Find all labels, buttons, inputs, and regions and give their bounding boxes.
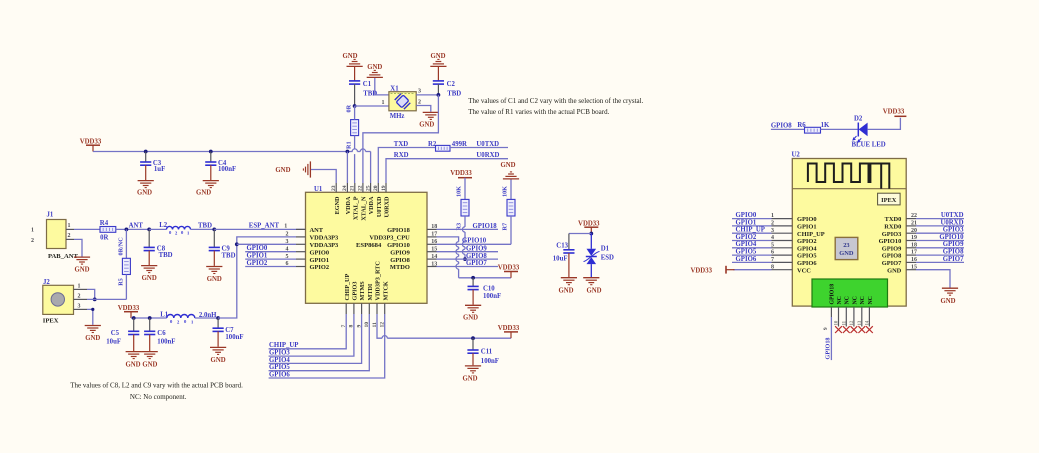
svg-text:17: 17 [431, 232, 437, 238]
svg-text:25: 25 [365, 185, 371, 191]
svg-text:C6: C6 [157, 330, 166, 337]
wire net GPIO7 [437, 260, 499, 267]
U1 pin 14 GPIO8 [390, 254, 437, 264]
svg-text:BLUE LED: BLUE LED [852, 141, 886, 148]
U1 pin 6 GPIO2 [296, 264, 329, 271]
wire VDDA pin25 to rail [370, 152, 372, 184]
svg-text:TBD: TBD [159, 252, 173, 259]
svg-text:GPIO6: GPIO6 [797, 260, 817, 267]
U2 pin 20 GPIO3 [882, 227, 964, 238]
junction C10 [471, 276, 475, 280]
svg-text:1: 1 [68, 223, 71, 229]
svg-text:15: 15 [431, 247, 437, 253]
junction VDDA pin 24 [346, 150, 350, 154]
svg-text:GND: GND [500, 162, 515, 169]
wire U1 pin17 to VDD33/C10 [437, 237, 512, 278]
wire VDD33 rail [93, 149, 371, 152]
ground above C2 [430, 53, 446, 81]
U2 pin 19 GPIO10 [879, 234, 965, 245]
node XTAL_N junction [437, 93, 441, 97]
U1 bottom pin 9 MTMS [356, 281, 366, 328]
svg-text:GPIO8: GPIO8 [466, 253, 487, 260]
ground under C8 [141, 266, 157, 283]
U1 pin 1 ANT [296, 227, 324, 234]
wire J2.2 to R5 [87, 298, 126, 300]
svg-text:20: 20 [373, 185, 379, 191]
svg-text:GPIO0: GPIO0 [736, 212, 757, 219]
svg-text:GPIO8: GPIO8 [390, 257, 410, 264]
U1 top pin 20 U0TXD [373, 183, 383, 217]
svg-text:GND: GND [839, 250, 854, 257]
svg-text:18: 18 [431, 224, 437, 230]
svg-text:NC: NC [852, 296, 858, 304]
diode D1 ESD [584, 234, 615, 278]
diode D2 BLUE LED [852, 115, 886, 148]
power VDD33 at D1 [578, 220, 600, 233]
svg-text:GPIO5: GPIO5 [736, 249, 757, 256]
wire net GPIO8 to R6 [771, 122, 805, 129]
svg-text:MHz: MHz [390, 113, 405, 120]
svg-text:VDD3P3_CPU: VDD3P3_CPU [369, 235, 410, 242]
svg-text:GPIO18: GPIO18 [824, 337, 831, 359]
svg-text:GND: GND [142, 275, 157, 282]
svg-text:2: 2 [78, 293, 81, 299]
svg-text:GPIO6: GPIO6 [269, 371, 290, 378]
U1 pin 15 GPIO9 [390, 247, 437, 257]
U2 center pad 23 GND [835, 237, 858, 259]
svg-text:ANT: ANT [310, 227, 324, 234]
svg-text:0R/NC: 0R/NC [118, 237, 125, 255]
resistor R4 0R [100, 220, 116, 241]
junction at U1 pin 3 [235, 242, 296, 246]
capacitor C9 TBD [209, 228, 236, 266]
svg-text:GND: GND [85, 335, 100, 342]
svg-text:TBD: TBD [222, 252, 236, 259]
wire D2 to VDD33 [868, 118, 901, 130]
svg-text:VDD33: VDD33 [498, 265, 520, 272]
svg-text:2: 2 [68, 233, 71, 239]
wire net GPIO2 at U1 [245, 260, 296, 267]
svg-text:GND: GND [137, 189, 152, 196]
svg-text:U0RXD: U0RXD [384, 196, 391, 217]
U1 top pin 19 U0RXD [381, 183, 391, 217]
U2 NC pin 11 no-connect [843, 307, 850, 333]
svg-text:10: 10 [835, 320, 840, 325]
U2 pin 8 VCC [733, 264, 811, 274]
svg-text:GPIO18: GPIO18 [473, 223, 498, 230]
svg-text:GPIO3: GPIO3 [882, 231, 902, 238]
svg-text:TXD: TXD [394, 141, 408, 148]
svg-text:C13: C13 [556, 243, 568, 250]
U1 pin 18 GPIO18 [387, 224, 437, 234]
svg-text:U0TXD: U0TXD [476, 141, 499, 148]
U2 NC pin 14 no-connect [866, 307, 873, 333]
svg-text:GND: GND [419, 121, 434, 128]
svg-text:The values of C8, L2 and C9 v: The values of C8, L2 and C9 vary with th… [70, 382, 243, 390]
svg-text:RXD: RXD [394, 152, 409, 159]
svg-text:GPIO5: GPIO5 [269, 364, 290, 371]
svg-text:RXD0: RXD0 [884, 224, 901, 231]
U1 pin 3 VDDA3P3 [296, 242, 338, 249]
svg-text:GPIO1: GPIO1 [247, 253, 268, 260]
svg-text:GND: GND [275, 167, 290, 174]
wire J1.2 to ground [74, 239, 82, 256]
resistor R3 10K [455, 186, 469, 231]
svg-text:CHIP_UP: CHIP_UP [736, 227, 765, 234]
ground under C7 [210, 347, 226, 364]
svg-text:ANT: ANT [129, 223, 144, 230]
connector J2 (IPEX) [43, 279, 74, 324]
U1 bottom pin 10 MTDI [364, 283, 374, 327]
U1 top pin 21 XTAL_P [350, 183, 360, 220]
junction C6 [148, 316, 152, 320]
svg-text:GND: GND [74, 267, 89, 274]
svg-text:GPIO10: GPIO10 [387, 242, 410, 249]
svg-text:6: 6 [286, 261, 289, 267]
wire VDD33 node to C13 [569, 232, 593, 250]
svg-text:NC: NC [837, 296, 843, 304]
U1 top pin 24 VDDA [342, 183, 352, 214]
svg-text:VDD33: VDD33 [118, 305, 140, 312]
ground under C13 [558, 278, 577, 295]
svg-text:U2: U2 [792, 152, 801, 159]
resistor R7 10K [501, 186, 515, 231]
wire VDDA pin24 to rail [346, 152, 348, 184]
U1 pin numbers 2-6 [286, 232, 289, 268]
svg-text:GPIO2: GPIO2 [736, 234, 757, 241]
svg-text:VDD33: VDD33 [690, 267, 712, 274]
svg-text:C11: C11 [481, 348, 493, 355]
wire net GPIO8 [437, 253, 499, 260]
svg-text:NC: NC [845, 296, 851, 304]
U1 pin 2 VDDA3P3 [296, 235, 338, 242]
svg-text:3: 3 [78, 303, 81, 309]
wire C7 node to U1 VDDA3P3 pins [218, 237, 296, 318]
J2 pin 1 [74, 283, 88, 289]
crystal X1 MHz [389, 85, 416, 120]
wire R4 to node ANT [116, 228, 149, 230]
svg-text:2: 2 [286, 232, 289, 238]
svg-text:GPIO1: GPIO1 [736, 219, 757, 226]
wire ANT to L2 [149, 228, 166, 230]
U2 pin 2 GPIO1 [732, 219, 817, 230]
wire net GPIO3 [269, 314, 354, 357]
svg-text:C5: C5 [111, 330, 120, 337]
ground under C9 [206, 267, 222, 284]
wire net GPIO18 [437, 223, 499, 230]
wire R7 to GPIO10 [510, 216, 512, 244]
wire net RXD / U0RXD [386, 152, 508, 183]
U2 pin 3 CHIP_UP [732, 227, 825, 238]
wire X1 pin 3 to C2 node [416, 89, 438, 95]
svg-text:ESP8684: ESP8684 [356, 242, 382, 249]
svg-text:GND: GND [211, 357, 226, 364]
svg-text:GPIO4: GPIO4 [797, 245, 817, 252]
wire L2 to C9 node [191, 228, 215, 230]
svg-text:GPIO9: GPIO9 [390, 249, 410, 256]
svg-text:VDDA: VDDA [345, 196, 352, 214]
svg-text:U0RXD: U0RXD [476, 152, 499, 159]
U1 pin 17 VDD3P3_CPU [369, 232, 437, 242]
ground under C5 [125, 352, 141, 369]
svg-text:GPIO0: GPIO0 [797, 216, 817, 223]
svg-text:VCC: VCC [797, 267, 811, 274]
svg-text:23: 23 [331, 185, 337, 191]
wire net GPIO4 [269, 314, 362, 364]
svg-text:GPIO7: GPIO7 [466, 260, 487, 267]
svg-text:MTDO: MTDO [390, 264, 410, 271]
capacitor C4 100nF [205, 152, 236, 181]
svg-text:100nF: 100nF [481, 358, 499, 365]
svg-text:1: 1 [284, 224, 287, 230]
svg-text:GPIO10: GPIO10 [462, 238, 487, 245]
ground above R7 [500, 162, 519, 199]
svg-text:GPIO3: GPIO3 [269, 350, 290, 357]
wire R6 to D2 [821, 128, 858, 130]
svg-text:GPIO2: GPIO2 [247, 260, 268, 267]
capacitor C3 1uF [140, 152, 165, 181]
wire net GPIO6 [269, 314, 385, 378]
svg-text:MTMS: MTMS [359, 281, 366, 301]
U2 bottom connector (green) [812, 279, 888, 307]
svg-text:GPIO8: GPIO8 [771, 122, 792, 129]
resistor R5 0R/NC vertical [118, 229, 131, 299]
U2 pin 22 TXD0 [885, 212, 964, 223]
svg-text:14: 14 [866, 320, 871, 325]
connector J1 (PAB_ANT) [31, 212, 79, 260]
svg-text:IPEX: IPEX [43, 317, 59, 324]
U2 pin 6 GPIO5 [732, 249, 817, 260]
power VDD33 at C11 [498, 325, 520, 338]
svg-text:VDDA3P3: VDDA3P3 [310, 242, 339, 249]
wire net TXD [378, 141, 435, 183]
svg-text:GND: GND [367, 64, 382, 71]
ground under C11 [462, 366, 481, 382]
U2 pin 16 GPIO7 [882, 256, 964, 267]
svg-text:MTDI: MTDI [367, 283, 374, 300]
capacitor C10 100nF [468, 278, 502, 305]
svg-text:GPIO7: GPIO7 [882, 260, 902, 267]
svg-text:The values of C1 and C2 vary w: The values of C1 and C2 vary with the se… [468, 97, 643, 105]
svg-text:3: 3 [286, 239, 289, 245]
svg-text:GPIO1: GPIO1 [310, 257, 330, 264]
svg-text:NC: NC [868, 296, 874, 304]
wire J1.1 to R4 [74, 228, 100, 230]
junction C4 [209, 150, 213, 154]
U1 pin 5 GPIO1 [296, 257, 329, 264]
svg-text:VDD33: VDD33 [578, 220, 600, 227]
ground under J1 [74, 257, 90, 274]
svg-text:ESP_ANT: ESP_ANT [249, 223, 280, 230]
svg-text:C10: C10 [483, 285, 495, 292]
node ANT junction [125, 223, 144, 232]
svg-text:CHIP_UP: CHIP_UP [797, 231, 825, 238]
U2 pin 18 GPIO9 [882, 241, 964, 252]
capacitor C5 10uF [106, 318, 139, 351]
svg-text:GND: GND [207, 276, 222, 283]
svg-text:GND: GND [887, 267, 902, 274]
U2 pin 7 GPIO6 [732, 256, 817, 267]
svg-text:VDD33: VDD33 [498, 325, 520, 332]
svg-text:The value of R1 varies with th: The value of R1 varies with the actual P… [468, 108, 609, 116]
U1 pin 16 GPIO10 [387, 239, 437, 249]
wire R3 to GPIO8 [462, 216, 467, 261]
svg-text:GPIO0: GPIO0 [310, 249, 330, 256]
svg-text:GPIO3: GPIO3 [943, 227, 964, 234]
svg-text:23: 23 [843, 242, 849, 249]
svg-text:0R: 0R [100, 234, 108, 241]
ground above C1 [342, 53, 362, 81]
wire L1 to C7 node [195, 316, 220, 320]
wire net GPIO1 at U1 [245, 253, 296, 260]
svg-text:1uF: 1uF [154, 166, 165, 173]
svg-text:GPIO18: GPIO18 [387, 227, 410, 234]
U2 pin 17 GPIO8 [882, 249, 964, 260]
wire net ESP_ANT to U1 pin 1 [214, 223, 305, 230]
resistor R6 1K [797, 122, 830, 133]
svg-text:GPIO10: GPIO10 [939, 234, 964, 241]
U2 pin 21 RXD0 [884, 219, 964, 230]
wire net GPIO5 [269, 314, 370, 371]
ground under C3 [137, 181, 154, 197]
power VDD33 top right [883, 108, 907, 116]
svg-text:D2: D2 [854, 115, 863, 122]
svg-text:TBD: TBD [447, 90, 461, 97]
U2 pin 4 GPIO2 [732, 234, 817, 245]
svg-text:GND: GND [125, 361, 140, 368]
J1 pin 2 stub [66, 233, 74, 239]
svg-text:GND: GND [462, 375, 477, 382]
svg-text:VDD33: VDD33 [883, 108, 905, 115]
svg-text:10K: 10K [455, 186, 462, 197]
wire J2.1 to J2.2 node [87, 289, 97, 301]
ground at U2 pin 15 [940, 288, 958, 305]
svg-text:10uF: 10uF [106, 338, 121, 345]
svg-text:MTCK: MTCK [382, 281, 389, 300]
svg-text:100nF: 100nF [225, 334, 243, 341]
wire net GPIO9 [437, 245, 499, 252]
U1 pin 13 MTDO [390, 261, 437, 271]
wire X1 pin 2 to ground [416, 99, 431, 112]
svg-text:GPIO1: GPIO1 [797, 224, 817, 231]
U2 pin 5 GPIO4 [732, 241, 817, 252]
svg-text:2: 2 [418, 99, 421, 105]
svg-text:16: 16 [431, 239, 437, 245]
wire net GPIO0 at U1 [245, 245, 296, 252]
resistor R2 499R [428, 141, 467, 151]
svg-text:GPIO0: GPIO0 [247, 245, 268, 252]
ground under D1 [583, 278, 601, 295]
svg-text:GND: GND [586, 287, 601, 294]
svg-text:R5: R5 [118, 278, 125, 286]
svg-text:GPIO6: GPIO6 [736, 256, 757, 263]
svg-text:21: 21 [350, 185, 356, 191]
svg-text:VDDA3P3: VDDA3P3 [310, 235, 339, 242]
U2 PCB antenna [808, 164, 889, 189]
svg-text:GND: GND [558, 287, 573, 294]
U2 pin 9 GPIO18 wire [823, 307, 832, 360]
wire J2.3 to ground [87, 308, 94, 325]
op-chip U1 ESP8684 body [306, 186, 428, 303]
svg-text:GPIO8: GPIO8 [882, 253, 902, 260]
svg-text:1K: 1K [821, 122, 830, 129]
svg-text:NC: No component.: NC: No component. [130, 393, 187, 401]
svg-text:NC: NC [860, 296, 866, 304]
svg-text:22: 22 [358, 185, 364, 191]
wire XTAL_N return to U1 [363, 95, 439, 183]
svg-text:GND: GND [196, 189, 211, 196]
U1 bottom pin 7 CHIP_UP [341, 273, 351, 327]
power VDD33 at C10 [498, 265, 520, 278]
wire net CHIP_UP [269, 314, 347, 349]
svg-text:TBD: TBD [198, 222, 212, 229]
U2 IPEX label box [878, 193, 901, 205]
capacitor C7 100nF [213, 318, 244, 347]
svg-text:U0TXD: U0TXD [376, 196, 383, 217]
wire crystal node to X1 pin 1 [355, 100, 389, 106]
junction C3 [144, 150, 148, 154]
svg-text:GPIO8: GPIO8 [943, 249, 964, 256]
svg-text:5: 5 [286, 254, 289, 260]
inductor L2 [159, 222, 212, 235]
svg-text:3: 3 [418, 89, 421, 95]
U1 pin 4 GPIO0 [296, 249, 329, 256]
svg-text:ESD: ESD [601, 255, 614, 262]
ground under X1 pin 2 [419, 112, 439, 128]
svg-text:VDD33: VDD33 [80, 138, 102, 145]
svg-text:GPIO4: GPIO4 [736, 241, 757, 248]
ground under C6 [142, 352, 158, 369]
U2 NC pin 12 no-connect [850, 307, 857, 333]
svg-text:GPIO18: GPIO18 [830, 284, 836, 305]
svg-text:XTAL_P: XTAL_P [352, 196, 359, 220]
wire net GPIO10 [437, 238, 512, 245]
svg-text:VDDA: VDDA [368, 196, 375, 214]
svg-text:GPIO4: GPIO4 [269, 357, 290, 364]
J1 pin 1 stub [66, 223, 74, 229]
svg-text:10K: 10K [501, 186, 508, 197]
svg-text:100nF: 100nF [483, 293, 501, 300]
wire net U0TXD [450, 141, 508, 148]
U2 pin 1 GPIO0 [732, 212, 817, 223]
U1 top pin 25 VDDA [365, 183, 375, 214]
ground under C10 [463, 305, 481, 321]
svg-text:C2: C2 [447, 81, 456, 88]
power VDD33 for RTC filter [118, 305, 167, 318]
svg-text:C9: C9 [222, 245, 231, 252]
U1 top pin 22 XTAL_N [358, 183, 368, 221]
U2 pin 15 GND [887, 264, 950, 287]
U1 top pin 23 EGND [331, 183, 341, 214]
svg-text:GPIO3: GPIO3 [352, 282, 359, 301]
junction C11 [471, 336, 475, 340]
capacitor C11 100nF [467, 338, 499, 365]
svg-text:U0RXD: U0RXD [940, 219, 963, 226]
svg-text:11: 11 [843, 320, 848, 325]
svg-text:CHIP_UP: CHIP_UP [269, 342, 298, 349]
svg-text:9: 9 [823, 327, 829, 330]
svg-text:0R: 0R [345, 104, 352, 112]
svg-text:EGND: EGND [334, 196, 341, 214]
J2 pin 2 [74, 293, 88, 299]
power VDD33 main rail [80, 138, 102, 151]
svg-text:GND: GND [342, 53, 357, 60]
U1 bottom pin 11 VDD3P3_RTC [372, 261, 382, 327]
svg-text:13: 13 [431, 261, 437, 267]
svg-text:R7: R7 [501, 223, 508, 231]
capacitor C13 10uF [553, 243, 575, 278]
svg-text:XTAL_N: XTAL_N [361, 196, 368, 221]
